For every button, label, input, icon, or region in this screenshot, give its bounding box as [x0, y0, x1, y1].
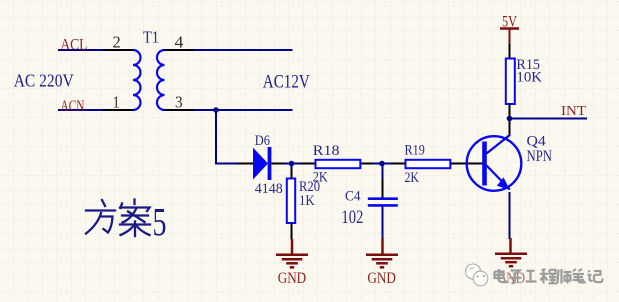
svg-text:10K: 10K — [516, 69, 542, 85]
svg-text:4: 4 — [175, 33, 184, 52]
svg-text:ACN: ACN — [61, 98, 85, 115]
svg-text:INT: INT — [561, 104, 586, 119]
svg-text:GND: GND — [278, 270, 307, 287]
svg-text:1K: 1K — [299, 193, 315, 209]
svg-text:2K: 2K — [313, 170, 328, 186]
svg-text:R19: R19 — [405, 142, 425, 158]
svg-text:ACL: ACL — [60, 36, 87, 53]
svg-text:GND: GND — [367, 270, 396, 287]
svg-text:AC12V: AC12V — [263, 72, 311, 92]
svg-text:R18: R18 — [313, 143, 340, 159]
svg-text:T1: T1 — [143, 28, 159, 47]
svg-text:5V: 5V — [502, 14, 517, 31]
svg-text:C4: C4 — [345, 188, 361, 204]
svg-text:NPN: NPN — [527, 148, 553, 165]
svg-text:102: 102 — [341, 207, 363, 228]
svg-text:D6: D6 — [255, 133, 271, 149]
svg-text:4148: 4148 — [255, 181, 283, 197]
svg-text:1: 1 — [113, 93, 120, 112]
svg-text:2K: 2K — [405, 170, 420, 186]
svg-text:3: 3 — [175, 93, 183, 112]
svg-text:2: 2 — [113, 33, 121, 52]
svg-text:AC 220V: AC 220V — [14, 71, 74, 91]
svg-text:5: 5 — [153, 200, 167, 245]
